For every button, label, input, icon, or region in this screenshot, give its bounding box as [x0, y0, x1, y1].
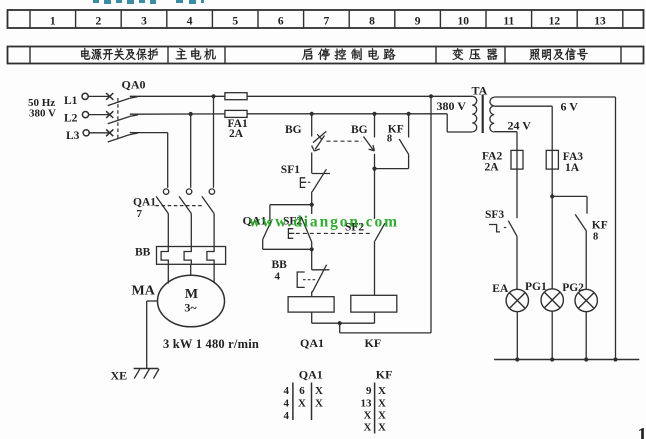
relay coil KF	[351, 295, 397, 350]
label motor rating	[163, 337, 259, 351]
switch QA0 pole L2	[88, 111, 138, 124]
svg-text:8: 8	[369, 16, 375, 28]
svg-text:KF: KF	[376, 368, 393, 382]
fuse FA1 lower	[225, 110, 447, 117]
wire 24V tap	[494, 132, 517, 151]
QA1 linkage	[156, 205, 204, 207]
TA secondary winding	[490, 97, 494, 132]
relay contact KF 8	[375, 114, 409, 169]
start button SF2 second pole	[345, 222, 385, 296]
svg-text:EA: EA	[492, 283, 509, 295]
wire L3	[130, 133, 168, 188]
label 24 V	[508, 119, 532, 133]
svg-text:380 V: 380 V	[437, 99, 467, 113]
start button SF2	[283, 205, 371, 250]
label FA3 1A	[563, 151, 583, 174]
svg-text:QA1: QA1	[300, 336, 324, 350]
svg-text:BB: BB	[135, 247, 151, 259]
contactor coil QA1	[288, 297, 334, 350]
switch QA0 pole L3	[88, 129, 138, 142]
svg-text:KF: KF	[365, 336, 382, 350]
svg-text:X: X	[298, 398, 306, 410]
switch QA0 pole L1	[88, 93, 138, 106]
wire L1 to fuse	[130, 95, 225, 97]
svg-text:13: 13	[594, 16, 606, 28]
svg-text:X: X	[315, 385, 323, 397]
motor MA	[158, 275, 225, 327]
svg-text:XE: XE	[111, 369, 128, 383]
node BG1 tap	[310, 112, 314, 116]
page number	[638, 425, 646, 439]
fuse FA1 upper	[225, 93, 431, 100]
svg-text:5: 5	[232, 16, 238, 28]
svg-text:1: 1	[638, 425, 646, 439]
wire BG1-SF1	[311, 153, 313, 174]
svg-text:7: 7	[324, 16, 330, 28]
wire QA1 coil bottom	[312, 312, 340, 323]
wire SF3-EA	[516, 236, 518, 289]
svg-text:4: 4	[284, 385, 290, 397]
wire PG1-bus	[551, 311, 553, 359]
overload contact BB 4	[272, 249, 330, 296]
label FA2 2A	[482, 151, 502, 174]
lighting return rail	[615, 97, 617, 360]
QA1 main contact 2	[179, 189, 192, 247]
fuse FA2	[511, 150, 523, 169]
svg-text:1: 1	[50, 16, 56, 28]
svg-text:BG: BG	[285, 124, 302, 136]
QA1 main contact 3	[202, 189, 215, 247]
lamp EA	[492, 283, 528, 312]
holding contact QA1	[243, 205, 312, 250]
fuse FA3	[546, 150, 558, 169]
svg-text:TA: TA	[472, 84, 488, 98]
QA1 main contact 1	[156, 189, 169, 247]
wire EA-bus	[516, 312, 518, 360]
svg-text:6: 6	[299, 385, 305, 397]
svg-text:L1: L1	[64, 95, 78, 107]
svg-text:6 V: 6 V	[561, 100, 579, 114]
svg-text:3~: 3~	[184, 301, 197, 315]
wire L2 to fuse	[130, 113, 225, 115]
svg-text:2A: 2A	[229, 128, 244, 140]
wire 6V tap	[494, 106, 552, 150]
switch QA0 linkage	[117, 98, 119, 141]
node BG2 tap	[372, 112, 376, 116]
wire FA2-SF3	[516, 169, 518, 218]
bottom bus	[494, 357, 639, 361]
watermark diangon	[249, 214, 399, 231]
earth XE	[111, 369, 160, 383]
node KF8 join	[372, 167, 376, 171]
svg-text:8: 8	[593, 232, 598, 243]
svg-text:MA: MA	[132, 284, 156, 299]
svg-text:13: 13	[361, 398, 373, 410]
svg-text:www.diangon.com: www.diangon.com	[249, 214, 399, 231]
node KF tap	[407, 112, 411, 116]
svg-text:L3: L3	[66, 130, 80, 142]
control return rail	[429, 94, 433, 333]
contact table QA1	[284, 368, 324, 423]
svg-text:SF1: SF1	[281, 164, 300, 176]
svg-text:QA1: QA1	[299, 368, 323, 382]
svg-text:12: 12	[549, 16, 561, 28]
svg-text:BG: BG	[351, 124, 368, 136]
svg-text:6: 6	[278, 16, 284, 28]
wire BB to motor	[168, 264, 214, 283]
relay contact KF 8 lamp	[552, 196, 608, 289]
lamp PG1	[525, 281, 563, 311]
TA primary winding	[431, 96, 477, 132]
svg-text:9: 9	[366, 385, 372, 397]
wire FA3-PG1	[551, 169, 553, 289]
svg-text:380 V: 380 V	[29, 108, 56, 120]
label 6 V	[561, 100, 579, 114]
cropped page title remnant	[93, 0, 204, 4]
position switch BG2	[327, 114, 375, 151]
section header table	[8, 47, 644, 64]
wire BG2-SF2	[374, 154, 376, 219]
node L1 drop	[211, 94, 215, 188]
node PG2 tap	[550, 194, 554, 198]
svg-text:4: 4	[187, 16, 193, 28]
position switch BG1	[285, 114, 326, 151]
label 50 Hz 380 V	[28, 97, 56, 120]
svg-text:X: X	[378, 422, 386, 434]
label MA	[132, 284, 156, 299]
wire PG2-bus	[585, 312, 587, 360]
switch SF3	[485, 209, 517, 236]
thermal relay BB box	[157, 247, 226, 265]
svg-text:BB: BB	[272, 259, 288, 271]
TA primary return	[447, 114, 472, 132]
svg-text:QA0: QA0	[122, 78, 146, 92]
svg-text:KF: KF	[592, 220, 608, 232]
svg-text:X: X	[315, 398, 323, 410]
svg-text:3: 3	[141, 16, 147, 28]
TA core	[482, 95, 484, 134]
svg-text:X: X	[378, 410, 386, 422]
svg-text:8: 8	[387, 134, 392, 145]
switch QA0 label	[122, 78, 146, 92]
transformer TA label	[472, 84, 488, 98]
svg-text:PG1: PG1	[525, 281, 547, 293]
svg-text:24 V: 24 V	[508, 119, 532, 133]
svg-text:X: X	[364, 410, 372, 422]
svg-text:QA1: QA1	[133, 197, 156, 209]
svg-text:2: 2	[96, 16, 102, 28]
svg-text:4: 4	[284, 398, 290, 410]
svg-text:2A: 2A	[485, 162, 500, 174]
thermal relay BB label	[135, 247, 151, 259]
svg-text:X: X	[378, 398, 386, 410]
terminal L3	[66, 130, 89, 142]
svg-text:X: X	[364, 422, 372, 434]
node L2 drop	[189, 112, 193, 188]
svg-text:4: 4	[275, 271, 281, 283]
stop button SF1	[281, 164, 330, 205]
wire secondary common	[494, 96, 615, 98]
svg-text:L2: L2	[64, 113, 78, 125]
svg-text:X: X	[378, 385, 386, 397]
node coil return	[338, 321, 431, 333]
svg-text:4: 4	[284, 410, 290, 422]
svg-text:11: 11	[503, 16, 514, 28]
wire motor to earth	[147, 301, 158, 369]
svg-text:SF3: SF3	[485, 209, 504, 221]
svg-text:3 kW 1 480 r/min: 3 kW 1 480 r/min	[163, 337, 259, 351]
svg-text:1A: 1A	[565, 162, 580, 174]
svg-text:9: 9	[415, 16, 421, 28]
node SF2 top	[310, 203, 314, 207]
terminal L1	[64, 93, 88, 107]
terminal L2	[64, 112, 89, 125]
node SF2 bottom	[310, 247, 314, 251]
contact table KF	[361, 368, 393, 434]
lamp PG2	[562, 282, 597, 312]
svg-text:10: 10	[457, 16, 469, 28]
wire KF coil bottom	[340, 312, 375, 323]
svg-text:7: 7	[137, 208, 143, 220]
svg-text:PG2: PG2	[562, 282, 584, 294]
label FA1 2A	[228, 118, 248, 140]
label 380 V	[437, 99, 467, 113]
column ruler table	[8, 10, 644, 28]
contactor QA1 label	[133, 197, 156, 221]
